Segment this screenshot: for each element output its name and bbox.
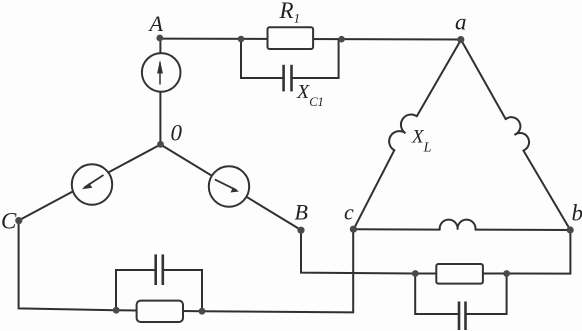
wire across bottom-right combo <box>415 273 506 275</box>
wire delta bottom c to coil <box>354 228 440 230</box>
wire B down then right to bottom-right combo <box>301 230 415 274</box>
svg-text:B: B <box>295 200 308 225</box>
capacitor bottom-right plates <box>459 302 466 331</box>
svg-text:A: A <box>148 11 164 36</box>
svg-text:0: 0 <box>171 121 183 146</box>
wire capacitor XC1 branch left <box>241 39 283 78</box>
node O dot <box>157 141 164 148</box>
inductor XL coil on side a-c <box>389 114 417 150</box>
wire c vertical down <box>352 229 354 312</box>
wire bottom-left cap branch right <box>163 270 202 311</box>
wire C down and bottom run to under c <box>19 221 354 313</box>
wire A to O vertical (through meter) <box>159 39 161 145</box>
meter in phase C <box>72 164 112 204</box>
wire delta side a-b upper segment <box>461 40 506 119</box>
inductor coil on side a-b <box>506 117 529 150</box>
junction dot bottom-left combo right <box>199 308 206 315</box>
wire delta side a-b lower segment <box>523 151 570 231</box>
node B dot <box>297 227 304 234</box>
node b dot <box>567 226 574 233</box>
svg-text:C: C <box>1 209 17 234</box>
resistor R1 box <box>268 27 314 49</box>
junction dot bottom-right combo right <box>503 270 510 277</box>
wire delta side a-c upper segment <box>417 40 461 116</box>
svg-text:a: a <box>455 10 467 35</box>
resistor box bottom-left <box>137 301 183 322</box>
wire bottom-right cap branch right <box>466 274 507 315</box>
inductor coil on bottom side c-b <box>440 220 476 230</box>
wire bottom-right cap branch left <box>415 274 458 315</box>
junction dot bottom-right combo left <box>412 270 419 277</box>
capacitor XC1 plates <box>284 65 292 92</box>
meter (ammeter) in phase A <box>142 53 181 92</box>
junction dot R1 left <box>238 36 245 43</box>
wire O to B <box>161 145 302 231</box>
node A dot <box>156 35 163 42</box>
capacitor bottom-left plates <box>156 254 163 285</box>
wire O to C <box>19 145 161 221</box>
wire A to a (top horizontal) <box>160 38 461 41</box>
svg-text:b: b <box>572 201 582 226</box>
wire bottom-left cap branch left <box>116 270 155 310</box>
wire combo to b <box>507 230 571 274</box>
wire delta side a-c lower segment <box>354 150 395 229</box>
meter in phase B <box>209 166 249 206</box>
junction dot bottom-left combo left <box>113 307 120 314</box>
svg-text:c: c <box>344 200 354 225</box>
resistor box bottom-right <box>436 264 483 284</box>
node c dot <box>350 226 357 233</box>
node C dot <box>15 217 22 224</box>
wire capacitor XC1 branch right <box>292 39 339 78</box>
node a dot <box>457 36 464 43</box>
wire delta bottom coil to b <box>476 229 571 231</box>
junction dot R1 right <box>338 36 345 43</box>
